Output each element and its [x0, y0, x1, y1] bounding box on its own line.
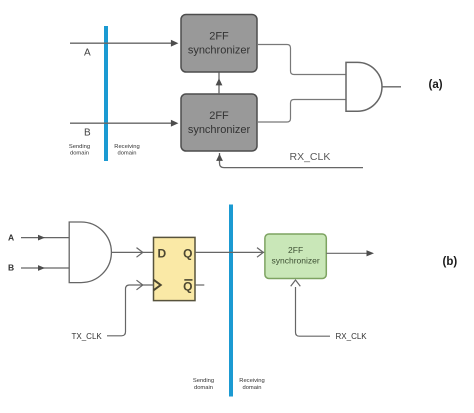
svg-text:domain: domain	[242, 385, 261, 391]
wire TX_CLK to FF1 clock	[107, 280, 154, 336]
domain boundary line (b)	[229, 205, 233, 397]
wire Q output to U3	[195, 248, 264, 258]
wire G1 output	[382, 86, 401, 88]
arrowhead B into U2	[171, 120, 179, 127]
svg-text:Q: Q	[183, 247, 192, 261]
label Sending domain (b)	[193, 378, 214, 391]
wire B (a)	[70, 122, 172, 124]
svg-text:A: A	[84, 47, 91, 58]
label Sending domain (a)	[69, 144, 90, 157]
svg-text:synchronizer: synchronizer	[272, 256, 320, 266]
wire G2 output to D input	[112, 248, 154, 258]
svg-text:B: B	[8, 263, 14, 273]
wire A (a)	[70, 42, 172, 44]
svg-text:A: A	[8, 233, 14, 243]
svg-text:2FF: 2FF	[288, 245, 303, 255]
svg-text:D: D	[158, 247, 167, 261]
AND gate G2 (b)	[69, 222, 111, 283]
wire U1 output to AND gate	[257, 45, 346, 75]
label Receiving domain (a)	[114, 144, 139, 157]
flip-flop FF1	[154, 237, 196, 300]
svg-text:RX_CLK: RX_CLK	[290, 151, 331, 163]
svg-text:Receiving: Receiving	[239, 378, 264, 384]
AND gate G1 (a)	[346, 62, 382, 111]
svg-text:(a): (a)	[429, 79, 443, 91]
wire A (b)	[21, 235, 69, 241]
svg-text:Receiving: Receiving	[114, 144, 139, 150]
domain boundary line (a)	[104, 26, 108, 161]
2FF synchronizer U2	[181, 94, 257, 151]
2FF synchronizer U3	[265, 234, 326, 279]
svg-text:domain: domain	[70, 150, 89, 156]
wire U3 output	[326, 250, 374, 256]
svg-text:domain: domain	[117, 150, 136, 156]
label Receiving domain (b)	[239, 378, 264, 391]
svg-text:TX_CLK: TX_CLK	[72, 332, 103, 341]
svg-text:Q: Q	[183, 279, 192, 293]
svg-text:domain: domain	[194, 385, 213, 391]
2FF synchronizer U1	[181, 15, 257, 73]
svg-text:RX_CLK: RX_CLK	[336, 332, 368, 341]
svg-text:2FF: 2FF	[209, 110, 229, 122]
svg-text:Sending: Sending	[193, 378, 214, 384]
svg-text:synchronizer: synchronizer	[188, 45, 251, 57]
svg-text:B: B	[84, 127, 91, 138]
wire RX_CLK into U2	[216, 153, 363, 168]
wire B (b)	[21, 265, 69, 271]
arrowhead A into U1	[171, 40, 179, 47]
wire U2 output to AND gate	[257, 100, 346, 123]
svg-text:Sending: Sending	[69, 144, 90, 150]
svg-text:(b): (b)	[443, 256, 458, 268]
wire clock chain U2 to U1	[216, 73, 223, 95]
wire RX_CLK to U3	[291, 280, 330, 336]
clock pin chevron	[154, 280, 161, 291]
svg-text:synchronizer: synchronizer	[188, 124, 251, 136]
svg-text:2FF: 2FF	[209, 31, 229, 43]
wire Q-bar stub	[195, 284, 204, 286]
